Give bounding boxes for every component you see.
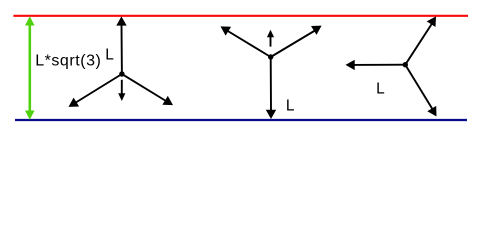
right rotated-Y structure: wire left arm xyxy=(352,64,405,66)
right structure: arrowhead up-right (touches red line) xyxy=(427,16,436,27)
left Y structure: arrowhead up (touches red line) xyxy=(116,16,126,25)
middle structure: short reaction arrowhead up xyxy=(267,30,274,38)
right structure: node junction dot xyxy=(403,62,408,67)
right structure: arrowhead left xyxy=(346,60,355,70)
left Y structure: wire down-left arm xyxy=(75,74,122,103)
left Y structure: node junction dot xyxy=(119,71,124,76)
middle structure: wire down arm xyxy=(270,57,272,111)
left Y structure: wire down-right arm xyxy=(122,74,166,101)
middle structure: arrowhead up-left xyxy=(221,26,232,35)
left structure: short weight arrow shaft xyxy=(121,80,123,95)
left structure: short weight arrowhead down xyxy=(118,93,125,101)
middle structure: arrowhead down (touches blue line) xyxy=(266,110,276,119)
svg-text:L*sqrt(3): L*sqrt(3) xyxy=(35,53,101,70)
green dimension arrowhead top xyxy=(25,16,35,25)
middle structure: node junction dot xyxy=(268,54,273,59)
left Y structure: arrowhead down-right xyxy=(162,96,173,105)
middle structure: wire up-right arm xyxy=(271,31,315,58)
green dimension arrowhead bottom xyxy=(25,111,35,120)
middle structure: short reaction arrow shaft xyxy=(270,37,272,47)
left Y structure: arrowhead down-left xyxy=(69,98,80,107)
middle structure: arrowhead up-right xyxy=(311,26,322,35)
middle inverted-Y structure: wire up-left arm xyxy=(227,31,271,58)
right structure: arrowhead down-right (touches blue line) xyxy=(427,106,436,117)
svg-text:L: L xyxy=(286,98,295,115)
svg-text:L: L xyxy=(105,47,114,64)
right structure: wire up-right arm xyxy=(405,22,433,65)
top ceiling line (red) xyxy=(13,15,468,17)
bottom floor line (dark blue) xyxy=(15,119,467,121)
svg-text:L: L xyxy=(376,81,385,98)
right structure: wire down-right arm xyxy=(405,65,433,110)
left Y structure: wire up arm xyxy=(121,24,123,74)
green dimension arrow shaft xyxy=(28,23,31,113)
